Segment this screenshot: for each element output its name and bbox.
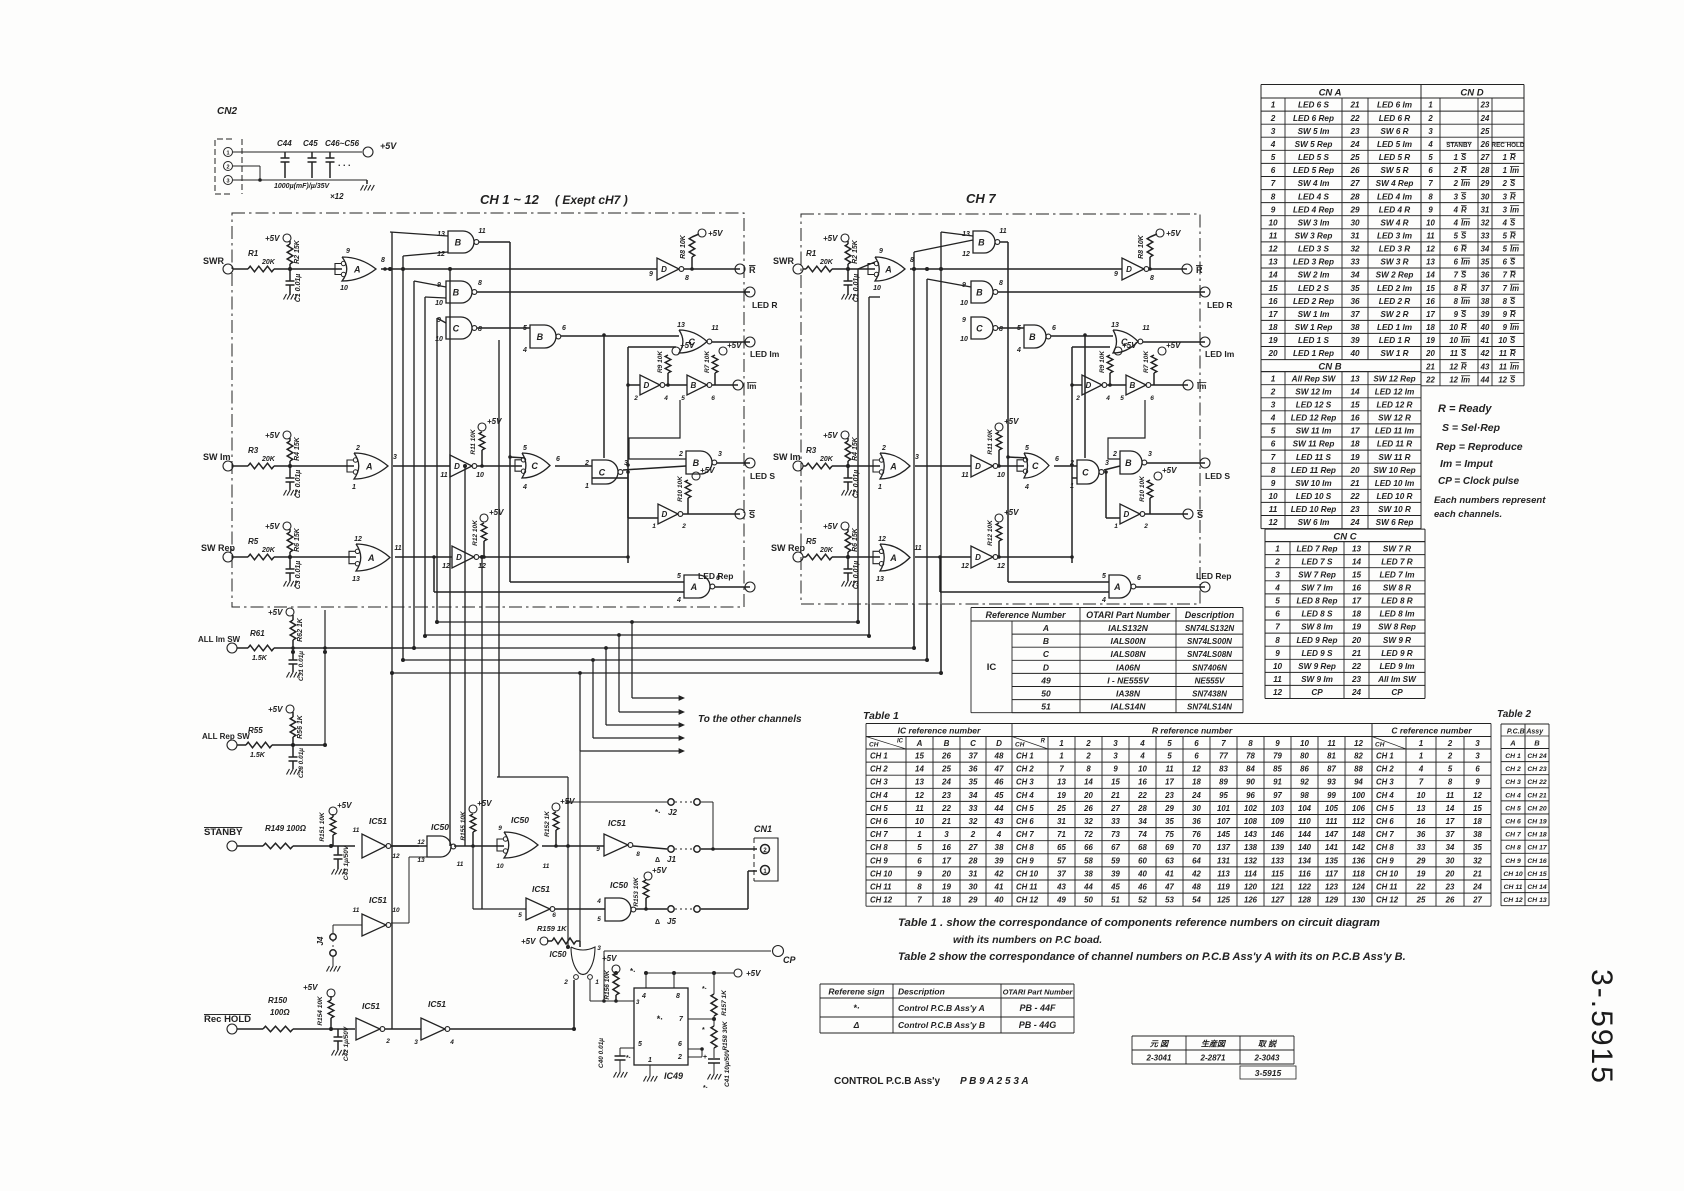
svg-text:44: 44 (994, 804, 1004, 813)
svg-text:53: 53 (1165, 896, 1174, 905)
wire feed 869,297 (869, 296, 880, 298)
svg-text:CH 22: CH 22 (1527, 779, 1546, 786)
svg-text:38: 38 (1084, 869, 1093, 878)
svg-text:SW 6 Rep: SW 6 Rep (1376, 518, 1414, 527)
svg-text:1.5K: 1.5K (250, 752, 266, 759)
wire +5V rail 555 (645, 973, 647, 988)
svg-text:4: 4 (596, 898, 601, 905)
junction 927,269 (925, 267, 929, 271)
svg-text:11: 11 (1450, 349, 1458, 358)
terminal LED S (1200, 458, 1210, 468)
svg-text:B: B (453, 288, 460, 298)
svg-text:Table 2: Table 2 (1497, 709, 1532, 720)
svg-text:27: 27 (1110, 804, 1120, 813)
svg-text:11: 11 (1142, 325, 1149, 332)
svg-text:SW 1 R: SW 1 R (1380, 349, 1408, 358)
svg-text:40: 40 (1349, 349, 1360, 358)
resistor R9 10K (665, 355, 671, 373)
svg-text:CH 9: CH 9 (1505, 858, 1521, 865)
svg-text:23: 23 (1480, 101, 1490, 110)
svg-text:R3: R3 (248, 446, 259, 455)
svg-text:7: 7 (1275, 623, 1280, 632)
svg-text:10: 10 (873, 285, 881, 292)
svg-text:Im: Im (1510, 284, 1519, 293)
svg-text:+5V: +5V (477, 799, 492, 808)
svg-text:IC: IC (987, 662, 997, 673)
svg-text:10: 10 (435, 336, 443, 343)
svg-text:20K: 20K (819, 259, 834, 266)
svg-text:+5V: +5V (727, 341, 742, 350)
svg-text:CH 1: CH 1 (870, 752, 888, 761)
svg-text:IC reference number: IC reference number (898, 726, 981, 736)
nor C (LED Im) (1113, 330, 1138, 353)
resistor R7 10K (1151, 355, 1157, 373)
wire B2 to LED R (998, 291, 1205, 293)
svg-text:79: 79 (1273, 752, 1282, 761)
svg-text:SW 4 Rep: SW 4 Rep (1376, 179, 1414, 188)
svg-text:21: 21 (941, 817, 951, 826)
svg-text:33: 33 (969, 804, 978, 813)
svg-text:113: 113 (1217, 869, 1230, 878)
svg-text:3: 3 (1113, 739, 1118, 748)
svg-text:2: 2 (1112, 451, 1117, 458)
terminal Rbar out (1182, 264, 1192, 274)
svg-text:35: 35 (1473, 843, 1482, 852)
svg-text:20K: 20K (261, 259, 276, 266)
svg-text:28: 28 (968, 856, 978, 865)
svg-text:S: S (1510, 375, 1516, 384)
svg-text:1: 1 (652, 523, 656, 530)
svg-text:12: 12 (442, 563, 450, 570)
svg-text:R9 10K: R9 10K (657, 350, 664, 373)
svg-text:SN74LS132N: SN74LS132N (1185, 624, 1235, 633)
svg-text:R153 10K: R153 10K (633, 876, 640, 907)
svg-text:*·: *· (853, 1003, 860, 1013)
svg-text:S: S (1510, 336, 1516, 345)
svg-text:7: 7 (1271, 179, 1276, 188)
svg-text:R6 15K: R6 15K (294, 527, 301, 552)
capacitor C1 0.01u (847, 269, 849, 281)
resistor R2 15K pullup (283, 234, 291, 242)
svg-text:R: R (1461, 166, 1467, 175)
svg-text:R55: R55 (248, 726, 263, 735)
table CN A and CN D (1261, 84, 1524, 86)
capacitor C43 (337, 846, 339, 855)
svg-text:R: R (1461, 245, 1467, 254)
svg-text:Description: Description (1185, 610, 1235, 620)
svg-text:4: 4 (522, 484, 527, 491)
svg-text:43: 43 (994, 817, 1004, 826)
svg-text:2: 2 (1447, 752, 1453, 761)
svg-text:S: S (1461, 310, 1467, 319)
svg-text:SW 8 R: SW 8 R (1383, 584, 1411, 593)
svg-text:8: 8 (478, 280, 482, 287)
svg-text:1000µ(mF)/µ/35V: 1000µ(mF)/µ/35V (274, 183, 330, 190)
svg-text:2: 2 (970, 830, 976, 839)
table drawing numbers (1132, 1035, 1294, 1037)
wire Rep row out (998, 556, 1072, 558)
svg-text:25: 25 (1056, 804, 1066, 813)
svg-text:CH 6: CH 6 (1376, 817, 1394, 826)
svg-text:7: 7 (1503, 271, 1508, 280)
terminal LED R (1200, 287, 1210, 297)
svg-text:11: 11 (1273, 675, 1282, 684)
svg-text:3: 3 (1271, 127, 1276, 136)
svg-text:45: 45 (1110, 883, 1120, 892)
svg-text:38: 38 (1473, 830, 1482, 839)
svg-text:30: 30 (1192, 804, 1201, 813)
resistor R151 10K (329, 807, 337, 815)
svg-text:84: 84 (1246, 765, 1255, 774)
wire B3 out (1051, 335, 1113, 337)
wire feed 403,256 (403, 252, 448, 256)
svg-text:SW 8 Rep: SW 8 Rep (1378, 623, 1416, 632)
svg-text:23: 23 (941, 791, 951, 800)
svg-text:C40 0.01µ: C40 0.01µ (598, 1038, 605, 1068)
svg-text:35: 35 (969, 778, 978, 787)
svg-text:CH 11: CH 11 (1504, 884, 1523, 891)
svg-text:22: 22 (1425, 375, 1435, 384)
svg-text:D: D (1043, 662, 1049, 672)
svg-text:CH 9: CH 9 (870, 856, 888, 865)
svg-text:85: 85 (1273, 765, 1282, 774)
svg-text:22: 22 (941, 804, 951, 813)
svg-text:R12 10K: R12 10K (987, 519, 994, 546)
svg-text:11: 11 (711, 325, 718, 332)
svg-text:9: 9 (1454, 310, 1459, 319)
svg-text:24: 24 (1349, 140, 1360, 149)
nand C1 (971, 317, 993, 339)
wire vertical x437 (436, 318, 438, 622)
svg-text:25: 25 (1416, 896, 1426, 905)
wire bus line y622 (437, 621, 858, 623)
svg-text:SW 11 Rep: SW 11 Rep (1293, 440, 1335, 449)
svg-text:8: 8 (1503, 297, 1508, 306)
svg-text:SN7406N: SN7406N (1192, 663, 1227, 672)
resistor R2 15K pullup (841, 234, 849, 242)
svg-text:R150: R150 (268, 996, 288, 1005)
junction 714,1019 (712, 1017, 716, 1021)
svg-text:49: 49 (1040, 675, 1051, 685)
svg-text:132: 132 (1244, 856, 1258, 865)
svg-text:R reference number: R reference number (1152, 726, 1233, 736)
ground C31 (287, 672, 290, 678)
svg-text:CONTROL P.C.B Ass'y: CONTROL P.C.B Ass'y (834, 1076, 941, 1087)
svg-text:3: 3 (1113, 752, 1118, 761)
svg-text:22: 22 (1137, 791, 1147, 800)
jumper J5 (668, 906, 674, 912)
svg-text:16: 16 (1350, 414, 1360, 423)
svg-text:51: 51 (1111, 896, 1120, 905)
svg-text:R154 10K: R154 10K (317, 995, 324, 1026)
svg-text:R: R (1461, 284, 1467, 293)
svg-text:16: 16 (1268, 297, 1278, 306)
svg-text:21: 21 (1351, 649, 1362, 658)
terminal S bar (1183, 509, 1193, 519)
svg-text:R = Ready: R = Ready (1438, 403, 1492, 415)
svg-text:Table 1: Table 1 (863, 710, 899, 722)
wire vertical x914 (913, 252, 915, 648)
svg-text:LED 2 S: LED 2 S (1298, 284, 1329, 293)
svg-text:SW 7 R: SW 7 R (1383, 544, 1411, 553)
svg-text:115: 115 (1271, 869, 1284, 878)
svg-text:59: 59 (1111, 856, 1120, 865)
resistor R6 15K pullup (841, 522, 849, 530)
svg-text:CH 13: CH 13 (1527, 897, 1546, 904)
svg-text:11: 11 (353, 827, 360, 834)
resistor R12 10K (481, 523, 487, 541)
svg-text:R1: R1 (248, 249, 259, 258)
svg-text:29: 29 (968, 896, 978, 905)
svg-text:+5V: +5V (265, 522, 280, 531)
ground (366, 180, 368, 184)
svg-text:86: 86 (1300, 765, 1309, 774)
svg-text:LED 9 R: LED 9 R (1381, 649, 1412, 658)
svg-text:3: 3 (226, 179, 229, 185)
svg-text:PB - 44F: PB - 44F (1019, 1003, 1056, 1013)
svg-text:9: 9 (1275, 739, 1280, 748)
svg-text:R5: R5 (806, 537, 817, 546)
svg-text:13: 13 (1352, 544, 1362, 553)
svg-text:27: 27 (1349, 179, 1360, 188)
svg-text:A: A (1509, 739, 1515, 748)
ground IC49 pin1 (649, 1065, 651, 1076)
svg-text:67: 67 (1111, 843, 1120, 852)
svg-text:R61: R61 (250, 629, 265, 638)
svg-text:8: 8 (478, 326, 482, 333)
svg-text:12: 12 (1498, 375, 1507, 384)
svg-text:R9 10K: R9 10K (1099, 350, 1106, 373)
svg-text:1: 1 (1059, 752, 1063, 761)
svg-text:22: 22 (1349, 492, 1360, 501)
svg-text:9: 9 (879, 248, 883, 255)
svg-text:139: 139 (1271, 843, 1285, 852)
resistor R158 30K (711, 1026, 717, 1048)
svg-text:4: 4 (1101, 597, 1106, 604)
wire to Im bar (1151, 384, 1188, 386)
svg-text:9: 9 (1428, 205, 1433, 214)
svg-text:SW Im: SW Im (773, 452, 801, 462)
svg-text:CH 11: CH 11 (1376, 883, 1398, 892)
svg-text:11: 11 (353, 907, 360, 914)
svg-text:SW 6 Im: SW 6 Im (1298, 518, 1330, 527)
svg-text:3-.5915: 3-.5915 (1585, 969, 1618, 1085)
svg-text:LED 2 Rep: LED 2 Rep (1293, 297, 1334, 306)
svg-text:75: 75 (1165, 830, 1174, 839)
svg-text:+5V: +5V (823, 431, 838, 440)
svg-text:13: 13 (437, 231, 445, 238)
svg-text:100Ω: 100Ω (270, 1008, 290, 1017)
svg-text:114: 114 (1244, 869, 1257, 878)
svg-text:A: A (889, 462, 897, 472)
ground C41 (708, 1074, 711, 1080)
svg-text:33: 33 (1111, 817, 1120, 826)
junction 290,466 (288, 464, 292, 468)
junction 325,745 (323, 743, 327, 747)
svg-text:48: 48 (1191, 883, 1201, 892)
svg-text:18: 18 (1350, 440, 1360, 449)
svg-text:31: 31 (969, 869, 978, 878)
svg-text:Description: Description (898, 987, 945, 997)
nand A (LED Rep) (1109, 575, 1131, 598)
svg-text:A: A (367, 553, 375, 563)
junction 848,466 (846, 464, 850, 468)
svg-text:35: 35 (1350, 284, 1360, 293)
svg-text:100: 100 (1352, 791, 1366, 800)
svg-text:+5V: +5V (823, 234, 838, 243)
svg-text:C: C (976, 324, 983, 334)
inverter D (S bar) (1120, 504, 1140, 524)
svg-text:SW 2 R: SW 2 R (1380, 310, 1408, 319)
svg-text:20: 20 (941, 869, 951, 878)
junction 574,1029 (572, 1027, 576, 1031)
ground C2 (284, 490, 287, 496)
svg-text:1: 1 (1114, 523, 1118, 530)
svg-text:8: 8 (1448, 778, 1453, 787)
svg-text:8: 8 (1454, 284, 1459, 293)
junction 869,636 (867, 634, 871, 638)
svg-text:B: B (944, 739, 950, 748)
svg-text:10: 10 (960, 336, 968, 343)
svg-text:R12 10K: R12 10K (472, 519, 479, 546)
svg-text:31: 31 (1350, 232, 1360, 241)
svg-text:I - NE555V: I - NE555V (1107, 675, 1150, 685)
svg-text:30: 30 (1481, 192, 1490, 201)
svg-text:R7 10K: R7 10K (704, 350, 711, 373)
svg-text:A: A (690, 582, 698, 592)
wire bus line y635 (425, 634, 869, 636)
svg-text:CH 3: CH 3 (1016, 778, 1034, 787)
svg-text:CH 7: CH 7 (1505, 832, 1522, 839)
svg-text:LED 12 S: LED 12 S (1296, 401, 1332, 410)
svg-text:36: 36 (969, 765, 978, 774)
svg-text:5: 5 (917, 843, 922, 852)
svg-text:LED 6 R: LED 6 R (1379, 114, 1410, 123)
svg-text:5: 5 (597, 916, 601, 923)
svg-text:2: 2 (1143, 523, 1148, 530)
svg-text:LED 5 Im: LED 5 Im (1377, 140, 1412, 149)
svg-text:42: 42 (994, 869, 1004, 878)
svg-text:131: 131 (1217, 856, 1230, 865)
svg-text:30: 30 (1350, 218, 1360, 227)
svg-text:63: 63 (1165, 856, 1174, 865)
svg-text:16: 16 (1352, 584, 1362, 593)
svg-text:CH: CH (1015, 742, 1025, 749)
svg-text:21: 21 (1349, 479, 1360, 488)
svg-text:B: B (1534, 739, 1540, 748)
box 3-5915 (1240, 1066, 1296, 1079)
svg-text:J4: J4 (316, 936, 325, 945)
svg-text:B: B (1043, 636, 1049, 646)
svg-text:30: 30 (1446, 856, 1455, 865)
wire Rep to A nand pin4 (432, 555, 436, 559)
svg-text:29: 29 (1164, 804, 1174, 813)
svg-text:C44: C44 (277, 139, 292, 148)
svg-text:1: 1 (1503, 153, 1507, 162)
svg-text:120: 120 (1244, 883, 1258, 892)
svg-text:11: 11 (915, 804, 924, 813)
wire feed 941,232 (941, 232, 973, 236)
svg-text:LED 9 Im: LED 9 Im (1379, 662, 1414, 671)
svg-text:R: R (1510, 153, 1516, 162)
svg-text:with its numbers on P.C bo: with its numbers on P.C boad. (953, 934, 1102, 946)
svg-text:101: 101 (1217, 804, 1230, 813)
svg-text:36: 36 (1350, 297, 1360, 306)
svg-text:R: R (1510, 271, 1516, 280)
svg-text:B: B (1125, 458, 1132, 468)
svg-text:41: 41 (1480, 336, 1490, 345)
svg-text:8: 8 (1248, 739, 1253, 748)
svg-text:SW 6 R: SW 6 R (1380, 127, 1408, 136)
junction 465,466 (463, 464, 467, 468)
svg-text:CP: CP (783, 955, 796, 965)
svg-text:145: 145 (1217, 830, 1231, 839)
resistor R4 15K pullup (841, 431, 849, 439)
svg-text:S: S (1461, 271, 1467, 280)
svg-text:S: S (1197, 510, 1203, 520)
svg-text:CH 17: CH 17 (1527, 845, 1547, 852)
svg-text:34: 34 (1481, 245, 1490, 254)
wire to S bar (1145, 513, 1188, 515)
junction 941,269 (939, 267, 943, 271)
svg-text:4: 4 (1270, 140, 1276, 149)
svg-text:CH: CH (869, 742, 879, 749)
svg-text:39: 39 (1111, 869, 1120, 878)
resistor R9 10K (1107, 355, 1113, 373)
junction 914,648 (912, 646, 916, 650)
svg-text:29: 29 (1480, 179, 1490, 188)
svg-text:124: 124 (1352, 883, 1366, 892)
svg-text:12: 12 (962, 251, 970, 258)
svg-text:CH 4: CH 4 (1505, 792, 1521, 799)
resistor R154 10K (327, 989, 335, 997)
wire arrow stub x632 (631, 622, 633, 698)
svg-text:48: 48 (994, 752, 1004, 761)
svg-text:25: 25 (941, 765, 951, 774)
table IC reference numbers (971, 607, 1243, 609)
svg-text:SW 12 R: SW 12 R (1378, 414, 1411, 423)
wire vertical x927 (926, 279, 928, 660)
svg-text:SW 9 Im: SW 9 Im (1301, 675, 1333, 684)
svg-text:119: 119 (1217, 883, 1230, 892)
svg-text:LED 10 Rep: LED 10 Rep (1291, 505, 1337, 514)
terminal +5V (363, 147, 373, 157)
ground C28 (287, 769, 290, 775)
svg-text:50: 50 (1041, 689, 1051, 699)
svg-text:each channels.: each channels. (1434, 509, 1502, 520)
svg-text:IC51: IC51 (369, 816, 387, 826)
svg-text:LED 8 S: LED 8 S (1302, 610, 1333, 619)
svg-text:*·: *· (703, 1085, 708, 1092)
svg-text:15: 15 (1352, 570, 1362, 579)
svg-text:4: 4 (663, 395, 668, 402)
svg-text:20K: 20K (261, 547, 276, 554)
svg-text:LED 1 Rep: LED 1 Rep (1293, 349, 1334, 358)
wire ground rail (233, 179, 367, 181)
svg-text:R: R (1196, 265, 1203, 275)
svg-text:IC51: IC51 (369, 895, 387, 905)
junction 293,745 (291, 743, 295, 747)
svg-text:42: 42 (1191, 869, 1201, 878)
svg-text:19: 19 (1350, 453, 1360, 462)
nand A (LED Rep) (684, 575, 710, 598)
svg-text:ALL Rep SW: ALL Rep SW (202, 732, 250, 741)
svg-text:LED 12 R: LED 12 R (1377, 401, 1413, 410)
terminal CP (773, 946, 784, 957)
svg-text:CH 14: CH 14 (1527, 884, 1546, 891)
svg-text:14: 14 (1268, 271, 1278, 280)
svg-text:9: 9 (1275, 649, 1280, 658)
